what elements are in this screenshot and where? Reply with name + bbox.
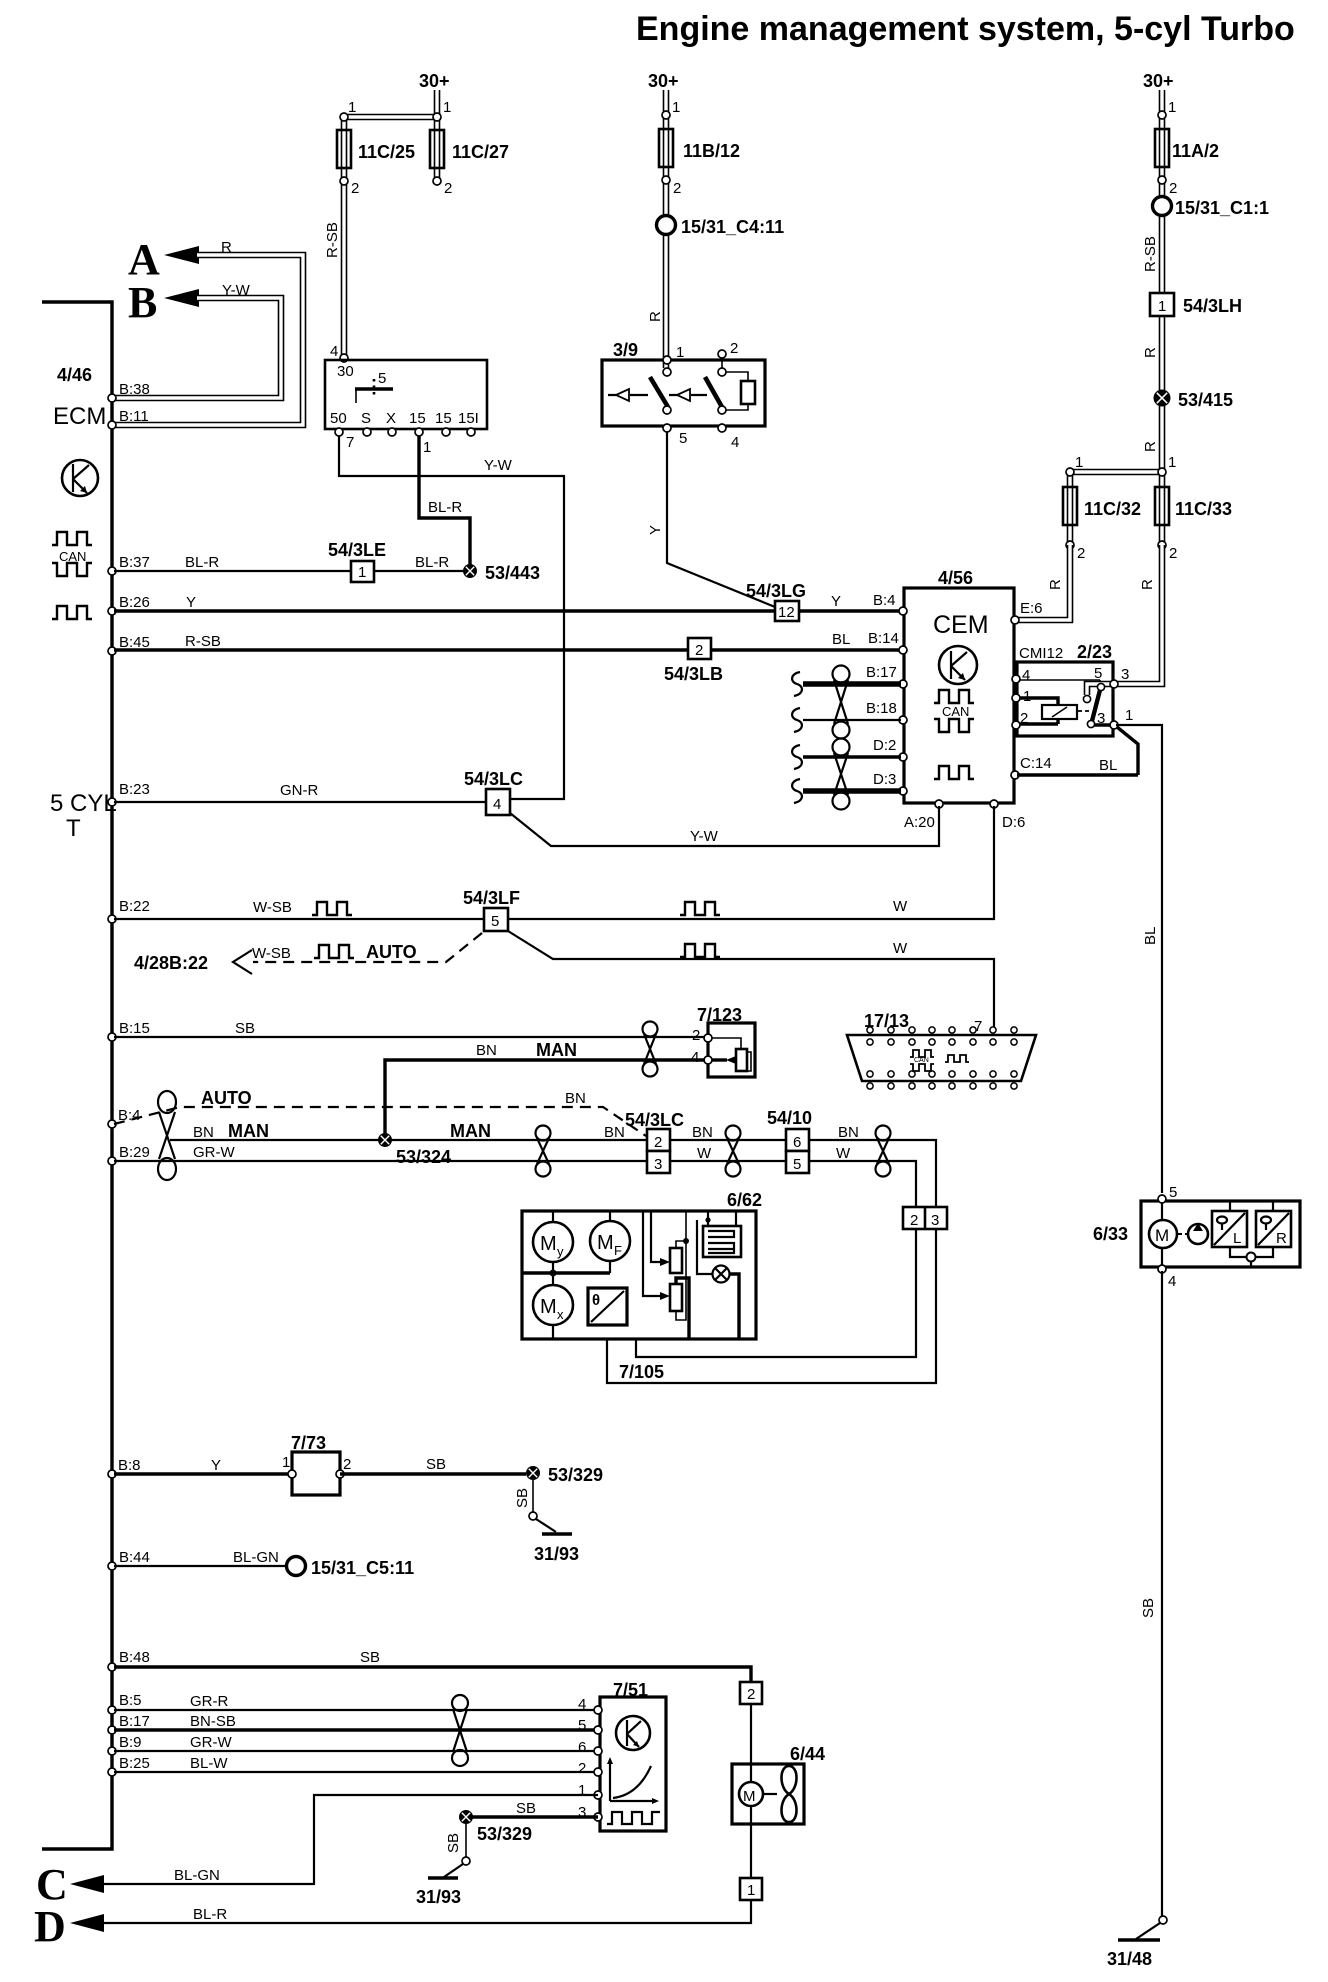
wire BL from 2/23 pin1 down right side	[1116, 725, 1162, 1193]
wire SB to 7/123 pin 2	[114, 1036, 705, 1038]
washer jet L	[1230, 1201, 1246, 1257]
lamp	[697, 1220, 712, 1274]
svg-text:X: X	[386, 410, 396, 427]
square wave in 7/51	[607, 1812, 660, 1824]
svg-text:R-SB: R-SB	[324, 222, 341, 258]
svg-text:BN-SB: BN-SB	[190, 1713, 236, 1730]
svg-text:AUTO: AUTO	[366, 942, 417, 962]
twisted pair at 7/123	[643, 1022, 658, 1077]
K symbol in 7/51	[616, 1716, 650, 1750]
svg-text:AUTO: AUTO	[201, 1088, 252, 1108]
svg-text:1: 1	[282, 1454, 290, 1471]
svg-text:R: R	[1139, 579, 1156, 590]
svg-text:M: M	[1155, 1226, 1169, 1245]
svg-text:T: T	[66, 815, 81, 842]
svg-text:2: 2	[654, 1134, 662, 1151]
svg-text:31/48: 31/48	[1107, 1949, 1152, 1969]
svg-text:11C/27: 11C/27	[452, 142, 509, 162]
svg-text:M: M	[743, 1788, 756, 1805]
svg-text:15/31_C5:11: 15/31_C5:11	[311, 1558, 414, 1578]
svg-text:1: 1	[1125, 707, 1133, 724]
svg-text:1: 1	[1168, 99, 1176, 116]
svg-text:R: R	[1142, 347, 1159, 358]
svg-text:1: 1	[443, 99, 451, 116]
svg-text:CAN: CAN	[59, 549, 86, 564]
in-line connector 2 (fan)	[740, 1682, 762, 1704]
wire from 7/51 pin1 to C	[98, 1795, 598, 1884]
svg-text:4: 4	[1022, 667, 1030, 684]
svg-text:12: 12	[778, 604, 795, 621]
svg-text:BN: BN	[838, 1124, 859, 1141]
svg-text:BL-R: BL-R	[185, 554, 219, 571]
svg-text:1: 1	[747, 1882, 755, 1899]
svg-text:M: M	[540, 1296, 557, 1318]
wire R 11C/32 to CEM E:6	[1016, 545, 1070, 620]
svg-text:31/93: 31/93	[534, 1544, 579, 1564]
svg-text:54/10: 54/10	[767, 1108, 812, 1128]
svg-text:E:6: E:6	[1020, 600, 1043, 617]
svg-text:R: R	[1276, 1230, 1287, 1247]
svg-text:30+: 30+	[1143, 71, 1174, 91]
wire BL-R to D	[98, 1900, 751, 1923]
svg-text:SB: SB	[514, 1488, 531, 1508]
connector 15/31_C1:1	[1153, 197, 1172, 216]
dashed AUTO wire from B:4	[114, 1107, 646, 1136]
svg-text:2: 2	[910, 1212, 918, 1229]
svg-text:B:14: B:14	[868, 630, 899, 647]
svg-text:y: y	[557, 1244, 564, 1259]
svg-text:B:8: B:8	[118, 1457, 141, 1474]
twisted pair symbol D:2/D:3	[833, 739, 850, 810]
svg-text:53/324: 53/324	[396, 1147, 451, 1167]
svg-text:54/3LF: 54/3LF	[463, 888, 520, 908]
in-line connector 1 (fan)	[750, 1824, 752, 1878]
pins under 3/1	[335, 428, 343, 436]
svg-text:B:15: B:15	[119, 1020, 150, 1037]
svg-text:S: S	[361, 410, 371, 427]
svg-text:R: R	[221, 239, 232, 256]
connector 54/3LH pin 1	[1150, 293, 1174, 316]
svg-text:BL: BL	[832, 631, 850, 648]
wire W from 54/3LF to 17/13 pin 7	[508, 931, 994, 1028]
svg-text:1: 1	[348, 99, 356, 116]
ground 31/93 (upper)	[532, 1480, 534, 1512]
potentiometers	[643, 1211, 662, 1296]
wire BN to 7/105 theta sensor	[607, 1229, 936, 1383]
relay 3/9	[602, 340, 765, 451]
CAN symbol in CEM	[934, 690, 974, 703]
svg-text:2: 2	[1077, 545, 1085, 562]
svg-text:GN-R: GN-R	[280, 782, 318, 799]
wire Y to CEM B:4	[799, 609, 902, 612]
wire BL to CEM B:14	[711, 648, 902, 651]
square wave in CEM	[934, 766, 974, 779]
svg-text:B:18: B:18	[866, 700, 897, 717]
svg-text:15I: 15I	[458, 410, 479, 427]
svg-text:GR-W: GR-W	[193, 1144, 235, 1161]
svg-text:B:44: B:44	[119, 1549, 150, 1566]
K symbol in CEM	[939, 646, 977, 684]
wire W return to 6/62	[607, 1229, 916, 1357]
svg-text:53/443: 53/443	[485, 563, 540, 583]
svg-text:BL-GN: BL-GN	[174, 1867, 220, 1884]
svg-text:3/9: 3/9	[613, 340, 638, 360]
svg-text:1: 1	[672, 99, 680, 116]
washer jet R	[1256, 1201, 1273, 1257]
twisted pair symbol B:17/B:18	[833, 666, 850, 739]
CEM pins right/bottom	[1011, 616, 1019, 624]
svg-text:54/3LC: 54/3LC	[625, 1110, 684, 1130]
svg-text:5: 5	[793, 1156, 801, 1173]
svg-text:SB: SB	[235, 1020, 255, 1037]
graph symbol in 7/51	[610, 1760, 656, 1801]
K diagnostic symbol in ECM	[62, 460, 98, 496]
svg-text:54/3LG: 54/3LG	[746, 581, 806, 601]
svg-text:2: 2	[747, 1686, 755, 1703]
svg-text:3: 3	[1121, 666, 1129, 683]
svg-text:SB: SB	[360, 1649, 380, 1666]
wire BN MAN riser to 7/123 pin 4	[385, 1060, 705, 1134]
wire SB to fan circuit	[114, 1667, 751, 1682]
svg-text:GR-R: GR-R	[190, 1693, 228, 1710]
svg-text:1: 1	[1075, 454, 1083, 471]
svg-text:CMI12: CMI12	[1019, 645, 1063, 662]
wire SB from 7/51 pin3 to splice 53/329	[466, 1815, 598, 1818]
svg-text:54/3LH: 54/3LH	[1183, 296, 1242, 316]
wire BL-R ECM B:37 to splice	[114, 570, 463, 572]
svg-text:SB: SB	[445, 1833, 462, 1853]
svg-text:7/73: 7/73	[291, 1433, 326, 1453]
wire Y from 3/9 pin 5 to 54/3LG	[667, 432, 775, 607]
svg-text:MAN: MAN	[228, 1121, 269, 1141]
wire GR-W to 54/3LC pin 3	[114, 1160, 647, 1162]
svg-text:2: 2	[1020, 710, 1028, 727]
svg-text:R: R	[1142, 441, 1159, 452]
svg-text:D:6: D:6	[1002, 814, 1025, 831]
fuse 11B/12	[659, 129, 673, 167]
svg-text:B:22: B:22	[119, 898, 150, 915]
svg-text:M: M	[540, 1233, 557, 1255]
svg-text:1: 1	[676, 344, 684, 361]
svg-text:B:29: B:29	[119, 1144, 150, 1161]
pins 1 at split	[1066, 468, 1074, 476]
wire BL-R from 3/1 terminal 15	[419, 436, 470, 565]
svg-text:30: 30	[337, 363, 354, 380]
svg-text:BN: BN	[476, 1042, 497, 1059]
svg-text:31/93: 31/93	[416, 1887, 461, 1907]
svg-text:5: 5	[1094, 665, 1102, 682]
svg-text:CAN: CAN	[942, 704, 969, 719]
svg-text:5: 5	[491, 913, 499, 930]
svg-text:5: 5	[578, 1717, 586, 1734]
svg-text:15: 15	[435, 410, 452, 427]
svg-text:BN: BN	[604, 1124, 625, 1141]
twisted pair at 7/51	[452, 1695, 468, 1766]
svg-text:2: 2	[343, 1456, 351, 1473]
svg-text:B:4: B:4	[873, 592, 896, 609]
svg-text:A: A	[128, 235, 160, 284]
wire GN-R to 54/3LC pin 4	[114, 801, 486, 803]
twisted pair	[876, 1126, 891, 1177]
svg-text:BL-R: BL-R	[415, 554, 449, 571]
svg-text:5: 5	[1169, 1184, 1177, 1201]
svg-text:W: W	[836, 1145, 851, 1162]
bus line and junction	[522, 1271, 610, 1274]
wire W-SB to 54/3LF pin 5	[114, 918, 484, 920]
svg-text:2: 2	[1169, 180, 1177, 197]
svg-text:54/3LC: 54/3LC	[464, 769, 523, 789]
svg-text:30+: 30+	[648, 71, 679, 91]
svg-text:4: 4	[1168, 1273, 1176, 1290]
svg-text:B:23: B:23	[119, 781, 150, 798]
svg-text:SB: SB	[426, 1456, 446, 1473]
motor Mx	[552, 1273, 554, 1339]
resistor 7/73	[114, 1472, 292, 1475]
svg-text:4/56: 4/56	[938, 568, 973, 588]
svg-text:x: x	[557, 1307, 564, 1322]
svg-text:5: 5	[378, 370, 386, 387]
svg-text:BL-GN: BL-GN	[233, 1549, 279, 1566]
svg-text:BL-R: BL-R	[193, 1906, 227, 1923]
svg-text:15/31_C1:1: 15/31_C1:1	[1175, 198, 1269, 218]
continuation squiggles	[792, 672, 802, 696]
splice 53/443	[463, 564, 477, 578]
svg-text:ECM: ECM	[53, 403, 106, 430]
splice 53/324	[378, 1133, 392, 1147]
wire SB down right side	[1161, 1271, 1163, 1916]
wire BL 2/23 pin1 to C:14	[1017, 727, 1138, 775]
wire W from 54/3LF to CEM D:6	[508, 806, 994, 919]
svg-text:15/31_C4:11: 15/31_C4:11	[681, 217, 784, 237]
svg-text:1: 1	[578, 1782, 586, 1799]
wire Y-W from B:38 to arrow B (double line)	[114, 298, 281, 398]
alternative AUTO wire into 54/3LF (dashed)	[253, 933, 482, 962]
svg-text:Y: Y	[211, 1457, 221, 1474]
svg-text:11C/33: 11C/33	[1175, 499, 1232, 519]
svg-text:D: D	[34, 1902, 66, 1951]
ECM 4/46 control module outline	[42, 302, 112, 1849]
twisted pair mid MAN/GR-W	[536, 1126, 551, 1177]
svg-text:Y: Y	[831, 593, 841, 610]
svg-text:2: 2	[578, 1760, 586, 1777]
svg-text:R: R	[647, 311, 664, 322]
wire Y ECM B:26 to 54/3LG	[114, 609, 775, 612]
svg-text:Y-W: Y-W	[690, 828, 719, 845]
square wave symbol in ECM	[52, 606, 92, 619]
motor My	[552, 1211, 554, 1273]
motor M	[1161, 1203, 1163, 1220]
ground 31/93 (lower)	[465, 1824, 467, 1857]
fuse 11C/25	[337, 130, 351, 168]
svg-text:BL-R: BL-R	[428, 499, 462, 516]
svg-text:54/3LB: 54/3LB	[664, 664, 723, 684]
svg-text:6/62: 6/62	[727, 1190, 762, 1210]
wire BN MAN from twist to 54/3LC pin 2	[170, 1139, 647, 1141]
wire R-SB ECM B:45 to 54/3LB	[114, 648, 688, 651]
svg-text:1: 1	[1158, 298, 1166, 315]
ignition switch 3/1	[325, 360, 487, 429]
svg-text:B:48: B:48	[119, 1649, 150, 1666]
svg-text:BL: BL	[1099, 757, 1117, 774]
svg-text:2: 2	[444, 180, 452, 197]
svg-text:4: 4	[731, 434, 739, 451]
svg-text:3: 3	[654, 1156, 662, 1173]
svg-text:54/3LE: 54/3LE	[328, 540, 386, 560]
svg-text:11A/2: 11A/2	[1172, 141, 1219, 161]
svg-text:M: M	[597, 1232, 614, 1254]
svg-text:2: 2	[673, 180, 681, 197]
svg-text:MAN: MAN	[536, 1040, 577, 1060]
svg-text:Engine management system, 5-cy: Engine management system, 5-cyl Turbo	[636, 10, 1295, 48]
link to pump	[1178, 1233, 1188, 1235]
wire SB to splice 53/329	[340, 1472, 526, 1475]
svg-text:1: 1	[1168, 454, 1176, 471]
svg-text:CEM: CEM	[933, 611, 989, 639]
wire BL-GN to connector 15/31_C5:11	[114, 1565, 287, 1567]
svg-text:B: B	[128, 278, 157, 327]
svg-text:53/329: 53/329	[548, 1465, 603, 1485]
svg-text:2: 2	[1169, 545, 1177, 562]
motor MF	[609, 1211, 611, 1273]
svg-text:2: 2	[695, 642, 703, 659]
heater grid	[708, 1211, 736, 1226]
svg-text:30+: 30+	[419, 71, 450, 91]
splice 53/415	[1154, 390, 1171, 407]
CEM pins left	[899, 607, 907, 615]
svg-text:A:20: A:20	[904, 814, 935, 831]
svg-text:B:38: B:38	[119, 381, 150, 398]
svg-text:B:26: B:26	[119, 594, 150, 611]
svg-text:5: 5	[679, 430, 687, 447]
wire Y-W from 54/3LC to CEM A:20	[510, 806, 939, 846]
svg-text:SB: SB	[1140, 1598, 1157, 1618]
svg-text:CAN: CAN	[914, 1057, 929, 1064]
svg-text:B:11: B:11	[119, 408, 149, 425]
twisted pair at ECM B:4/B:29	[158, 1091, 176, 1180]
svg-text:4: 4	[330, 343, 338, 360]
theta temperature sensor	[588, 1288, 627, 1325]
svg-text:D:2: D:2	[873, 737, 896, 754]
ground 31/48	[1159, 1916, 1167, 1924]
svg-text:BL-W: BL-W	[190, 1755, 228, 1772]
wires BN / W to in-line connector	[809, 1140, 936, 1207]
svg-text:R: R	[1047, 579, 1064, 590]
svg-text:W-SB: W-SB	[253, 899, 292, 916]
svg-text:7/105: 7/105	[619, 1362, 664, 1382]
svg-text:W: W	[893, 898, 908, 915]
fuse 11C/32	[1063, 487, 1077, 525]
svg-text:SB: SB	[516, 1800, 536, 1817]
svg-text:BN: BN	[193, 1124, 214, 1141]
svg-text:BL: BL	[1142, 927, 1159, 945]
CAN symbol in ECM	[52, 532, 92, 576]
svg-text:53/415: 53/415	[1178, 390, 1233, 410]
svg-text:GR-W: GR-W	[190, 1734, 232, 1751]
svg-text:50: 50	[330, 410, 347, 427]
svg-text:MAN: MAN	[450, 1121, 491, 1141]
svg-text:BN: BN	[565, 1090, 586, 1107]
svg-text:4/46: 4/46	[57, 365, 92, 385]
wire R 11C/33 to 2/23 pin 3	[1116, 545, 1162, 684]
svg-text:L: L	[1233, 1230, 1241, 1247]
svg-text:R-SB: R-SB	[185, 633, 221, 650]
svg-text:15: 15	[409, 410, 426, 427]
pump	[1188, 1224, 1208, 1244]
connector 54/3LB pin 2	[688, 638, 711, 659]
connector 15/31_C4:11	[657, 216, 676, 235]
twisted pair	[726, 1126, 741, 1177]
svg-text:5 CYL: 5 CYL	[50, 790, 117, 817]
svg-text:6: 6	[793, 1134, 801, 1151]
in-line connector 2|3	[903, 1207, 947, 1229]
wire R from B:11 to arrow A (double line)	[114, 255, 303, 425]
svg-text:Y-W: Y-W	[484, 457, 513, 474]
svg-text:1: 1	[358, 564, 366, 581]
svg-text:B:17: B:17	[119, 1713, 150, 1730]
svg-text:Y: Y	[647, 525, 664, 535]
svg-text:2: 2	[692, 1027, 700, 1044]
fuse 11C/33	[1155, 487, 1169, 525]
svg-text:6/44: 6/44	[790, 1744, 825, 1764]
svg-text:11B/12: 11B/12	[683, 141, 740, 161]
svg-text:11C/32: 11C/32	[1084, 499, 1141, 519]
svg-text:53/329: 53/329	[477, 1824, 532, 1844]
svg-text:4: 4	[691, 1049, 699, 1066]
svg-text:Y: Y	[186, 594, 196, 611]
fuse 11A/2	[1155, 129, 1169, 167]
svg-text:4: 4	[578, 1696, 586, 1713]
svg-text:2: 2	[730, 340, 738, 357]
svg-text:F: F	[614, 1243, 622, 1258]
svg-text:2: 2	[351, 180, 359, 197]
svg-text:4/28B:22: 4/28B:22	[134, 953, 208, 973]
svg-text:R-SB: R-SB	[1142, 236, 1159, 272]
svg-text:7: 7	[346, 434, 354, 451]
svg-text:C:14: C:14	[1020, 755, 1052, 772]
svg-text:3: 3	[931, 1212, 939, 1229]
svg-text:6/33: 6/33	[1093, 1224, 1128, 1244]
svg-text:B:9: B:9	[119, 1734, 142, 1751]
fuse 11C/27	[430, 130, 444, 168]
svg-text:Y-W: Y-W	[222, 282, 251, 299]
svg-text:B:37: B:37	[119, 554, 150, 571]
svg-text:B:17: B:17	[866, 664, 897, 681]
svg-text:1: 1	[423, 439, 431, 456]
svg-text:W-SB: W-SB	[252, 945, 291, 962]
svg-text:W: W	[893, 940, 908, 957]
pin 2 of 11C/27	[433, 177, 441, 185]
pin 2 of 11C/25	[340, 177, 348, 185]
svg-text:θ: θ	[592, 1292, 600, 1309]
svg-text:D:3: D:3	[873, 771, 896, 788]
wire Y-W from 3/1 terminal 50	[339, 436, 564, 799]
svg-text:B:25: B:25	[119, 1755, 150, 1772]
svg-text:2/23: 2/23	[1077, 642, 1112, 662]
svg-text:6: 6	[578, 1739, 586, 1756]
svg-text:B:5: B:5	[119, 1692, 142, 1709]
svg-text:BN: BN	[692, 1124, 713, 1141]
svg-text:11C/25: 11C/25	[358, 142, 415, 162]
svg-text:4: 4	[493, 796, 501, 813]
svg-text:W: W	[697, 1145, 712, 1162]
wires BN / W to 54/10	[670, 1139, 786, 1141]
